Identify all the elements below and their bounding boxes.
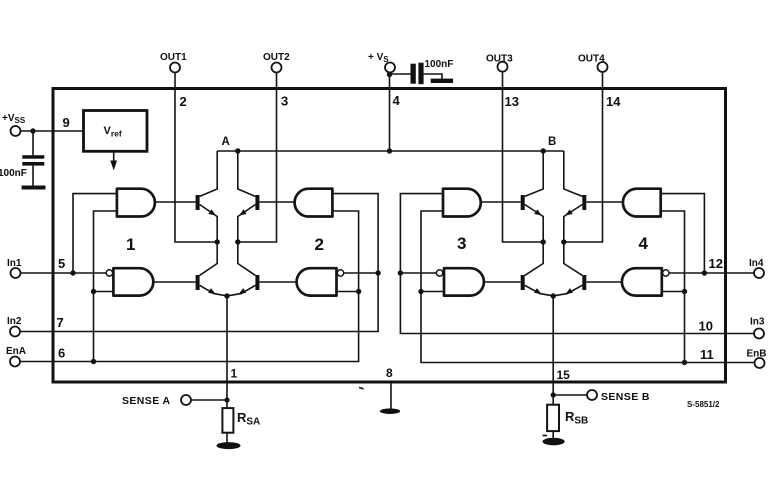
svg-text:1: 1: [231, 367, 238, 381]
svg-text:S-5851/2: S-5851/2: [687, 400, 720, 409]
wire EnB branch to gate U3B input: [421, 291, 444, 293]
pin SENSE A terminal: [181, 395, 191, 405]
capacitor C1 100nF plate bottom: [22, 162, 44, 166]
wire node to resistor RSA: [226, 400, 228, 408]
junction EnA branch gate U2B: [356, 289, 361, 294]
wire In1 to gate U1A top input: [73, 194, 117, 273]
svg-text:2: 2: [180, 94, 187, 109]
svg-text:In4: In4: [749, 258, 764, 269]
wire In3 line to gate 3: [400, 194, 754, 334]
wire resistor RSA to ground: [226, 433, 228, 443]
junction EnA branch gate U1B: [91, 289, 96, 294]
junction EnA branch gate 1: [91, 359, 96, 364]
junction In1 branch: [70, 270, 75, 275]
wire pin 13 OUT3 stem: [503, 71, 544, 242]
gate U1B AND: [113, 268, 153, 295]
wire gate U1A output to Q1 base: [155, 201, 196, 203]
wire EnB line: [421, 211, 755, 363]
gate U1A AND: [117, 189, 155, 217]
wire EnA branch to gate U2B input: [337, 291, 359, 293]
arrowhead Vref output: [110, 161, 117, 171]
wire pin 4 +Vs stem: [389, 72, 391, 151]
svg-text:9: 9: [63, 115, 70, 130]
wire capacitor C1 to ground: [32, 166, 34, 186]
wire resistor RSB to ground: [552, 431, 554, 438]
wire In4 line to gate 4: [669, 272, 754, 274]
wire In2 line to gate 2: [20, 194, 378, 332]
pin OUT3 terminal: [498, 62, 508, 72]
junction +Vss / C1: [30, 128, 35, 133]
junction In2 branch: [375, 270, 380, 275]
wire gate U2B output to Q4 base: [259, 281, 296, 283]
wire gate U2A output to Q3 base: [259, 201, 294, 203]
junction OUT3 node: [541, 239, 546, 244]
pin EnA terminal: [10, 357, 20, 367]
wire SENSE A to node: [191, 399, 227, 401]
svg-text:100nF: 100nF: [0, 168, 27, 179]
stray mark near RSB ground: [543, 435, 548, 437]
junction EnB branch gate U3B: [418, 289, 423, 294]
pin In1 terminal: [11, 268, 21, 278]
wire In1 to gate 1: [20, 272, 106, 274]
ground at RSB: [543, 438, 565, 446]
wire In3 branch to gate U3B bubble: [400, 272, 436, 274]
junction In3 branch: [398, 270, 403, 275]
svg-text:In2: In2: [7, 316, 22, 327]
svg-text:EnB: EnB: [747, 349, 767, 360]
svg-text:14: 14: [606, 94, 621, 109]
stray mark below box: [359, 388, 364, 389]
transistor Q2 lower-left bridge A: [196, 275, 227, 296]
svg-text:8: 8: [386, 366, 393, 380]
svg-text:B: B: [548, 136, 556, 148]
wire gate U4A output to Q7 base: [586, 201, 623, 203]
wire pin 2 OUT1 stem: [175, 72, 217, 242]
pin +Vss terminal: [11, 126, 21, 136]
svg-text:3: 3: [281, 94, 288, 109]
pin +Vs terminal: [385, 63, 395, 73]
junction OUT2 node: [235, 239, 240, 244]
gate U2B AND: [297, 268, 337, 295]
resistor RSB: [547, 405, 559, 431]
wire In4 to gate U4A top input: [661, 194, 705, 273]
svg-text:5: 5: [58, 256, 65, 271]
junction +Vs on rail: [387, 148, 392, 153]
pin SENSE B terminal: [587, 390, 597, 400]
wire gate U1B output to Q2 base: [153, 281, 195, 283]
wire Vs rail A-B: [217, 150, 564, 152]
svg-text:OUT2: OUT2: [263, 52, 290, 63]
gate U3B AND: [444, 268, 484, 295]
pin OUT1 terminal: [170, 63, 180, 73]
wire node to resistor RSB: [552, 395, 554, 405]
svg-text:SENSE B: SENSE B: [601, 391, 650, 403]
node A junction dot: [235, 148, 240, 153]
junction EnB branch gate U4B: [682, 289, 687, 294]
gate U4A AND: [623, 189, 661, 217]
gate U3A AND: [443, 189, 481, 217]
junction emitters bridge B: [551, 293, 556, 298]
wire EnB to gate U4A bottom input: [661, 211, 685, 363]
svg-text:1: 1: [126, 235, 135, 254]
svg-text:100nF: 100nF: [425, 59, 454, 70]
junction OUT4 node: [561, 239, 566, 244]
wire +Vss to capacitor C1: [32, 131, 34, 155]
gate U2A AND: [295, 189, 333, 217]
capacitor C1 100nF plate top: [22, 155, 44, 159]
node B junction dot: [541, 148, 546, 153]
wire +Vs to capacitor: [390, 73, 411, 75]
wire SENSE B to node: [553, 394, 587, 396]
wire pin 14 OUT4 stem: [564, 72, 603, 242]
ground at RSA: [217, 442, 241, 449]
wire pin 3 OUT2 stem: [238, 72, 277, 242]
svg-text:15: 15: [557, 368, 571, 382]
svg-text:13: 13: [505, 94, 519, 109]
junction EnB branch gate 4: [682, 360, 687, 365]
svg-text:A: A: [222, 136, 230, 148]
wire sense B line pin 15: [552, 296, 554, 395]
wire gate U3B output to Q6 base: [484, 281, 521, 283]
junction OUT1 node: [215, 239, 220, 244]
svg-text:In3: In3: [750, 317, 765, 328]
pin In2 terminal: [10, 327, 20, 337]
transistor Q1 upper-left bridge A: [196, 151, 218, 275]
svg-text:OUT1: OUT1: [160, 52, 187, 63]
junction +Vs below terminal: [387, 72, 392, 77]
transistor Q3 upper-right bridge A: [238, 151, 260, 275]
svg-text:6: 6: [58, 346, 65, 361]
wire In2 branch to gate U2B bubble: [344, 272, 378, 274]
gate U4B AND: [622, 268, 662, 295]
gate U4B bubble: [663, 270, 669, 276]
svg-text:4: 4: [639, 234, 649, 253]
svg-text:11: 11: [700, 347, 714, 362]
pin OUT4 terminal: [598, 62, 608, 72]
gate U3B bubble: [436, 270, 442, 276]
gate U2B bubble: [337, 270, 343, 276]
pin In3 terminal: [754, 329, 764, 339]
pin In4 terminal: [754, 268, 764, 278]
voltage reference U1 Vref box: [84, 111, 148, 152]
IC boundary box: [53, 89, 726, 383]
capacitor C2 100nF plate right: [418, 63, 423, 84]
svg-text:2: 2: [315, 235, 324, 254]
wire sense A line pin 1: [226, 296, 228, 400]
capacitor C2 100nF plate left: [411, 64, 416, 84]
junction SENSE B node: [551, 392, 556, 397]
transistor Q7 upper-right bridge B: [564, 151, 587, 275]
wire EnA to gate U1A bottom input: [94, 211, 117, 362]
wire pin 8 ground stem: [390, 384, 392, 409]
wire EnA branch to gate U1B input: [94, 291, 114, 293]
pin EnB terminal: [755, 358, 765, 368]
wire capacitor C2 to ground: [424, 74, 442, 79]
junction In4 branch: [702, 270, 707, 275]
svg-text:3: 3: [457, 234, 466, 253]
svg-text:SENSE A: SENSE A: [122, 395, 171, 407]
ground at C1: [22, 186, 46, 190]
wire EnA line: [20, 211, 359, 362]
wire Vref output arrow: [113, 152, 115, 163]
junction emitters bridge A: [224, 293, 229, 298]
transistor Q4 lower-right bridge A: [228, 275, 260, 296]
wire EnB branch to gate U4B input: [662, 291, 685, 293]
svg-text:4: 4: [393, 93, 401, 108]
transistor Q6 lower-left bridge B: [521, 275, 553, 296]
wire gate U3A output to Q5 base: [481, 201, 521, 203]
gate U1B bubble: [106, 270, 112, 276]
transistor Q8 lower-right bridge B: [554, 275, 587, 296]
svg-text:12: 12: [709, 256, 723, 271]
ground at C2: [431, 79, 453, 83]
transistor Q5 upper-left bridge B: [521, 151, 544, 275]
svg-text:10: 10: [699, 319, 713, 334]
wire gate U4B output to Q8 base: [586, 281, 622, 283]
ground at pin 8: [380, 408, 400, 414]
junction SENSE A node: [224, 397, 229, 402]
svg-text:7: 7: [57, 315, 64, 330]
svg-text:EnA: EnA: [6, 346, 26, 357]
resistor RSA: [222, 408, 233, 433]
pin OUT2 terminal: [272, 63, 282, 73]
wire pin 9 +Vss to Vref: [20, 130, 83, 132]
